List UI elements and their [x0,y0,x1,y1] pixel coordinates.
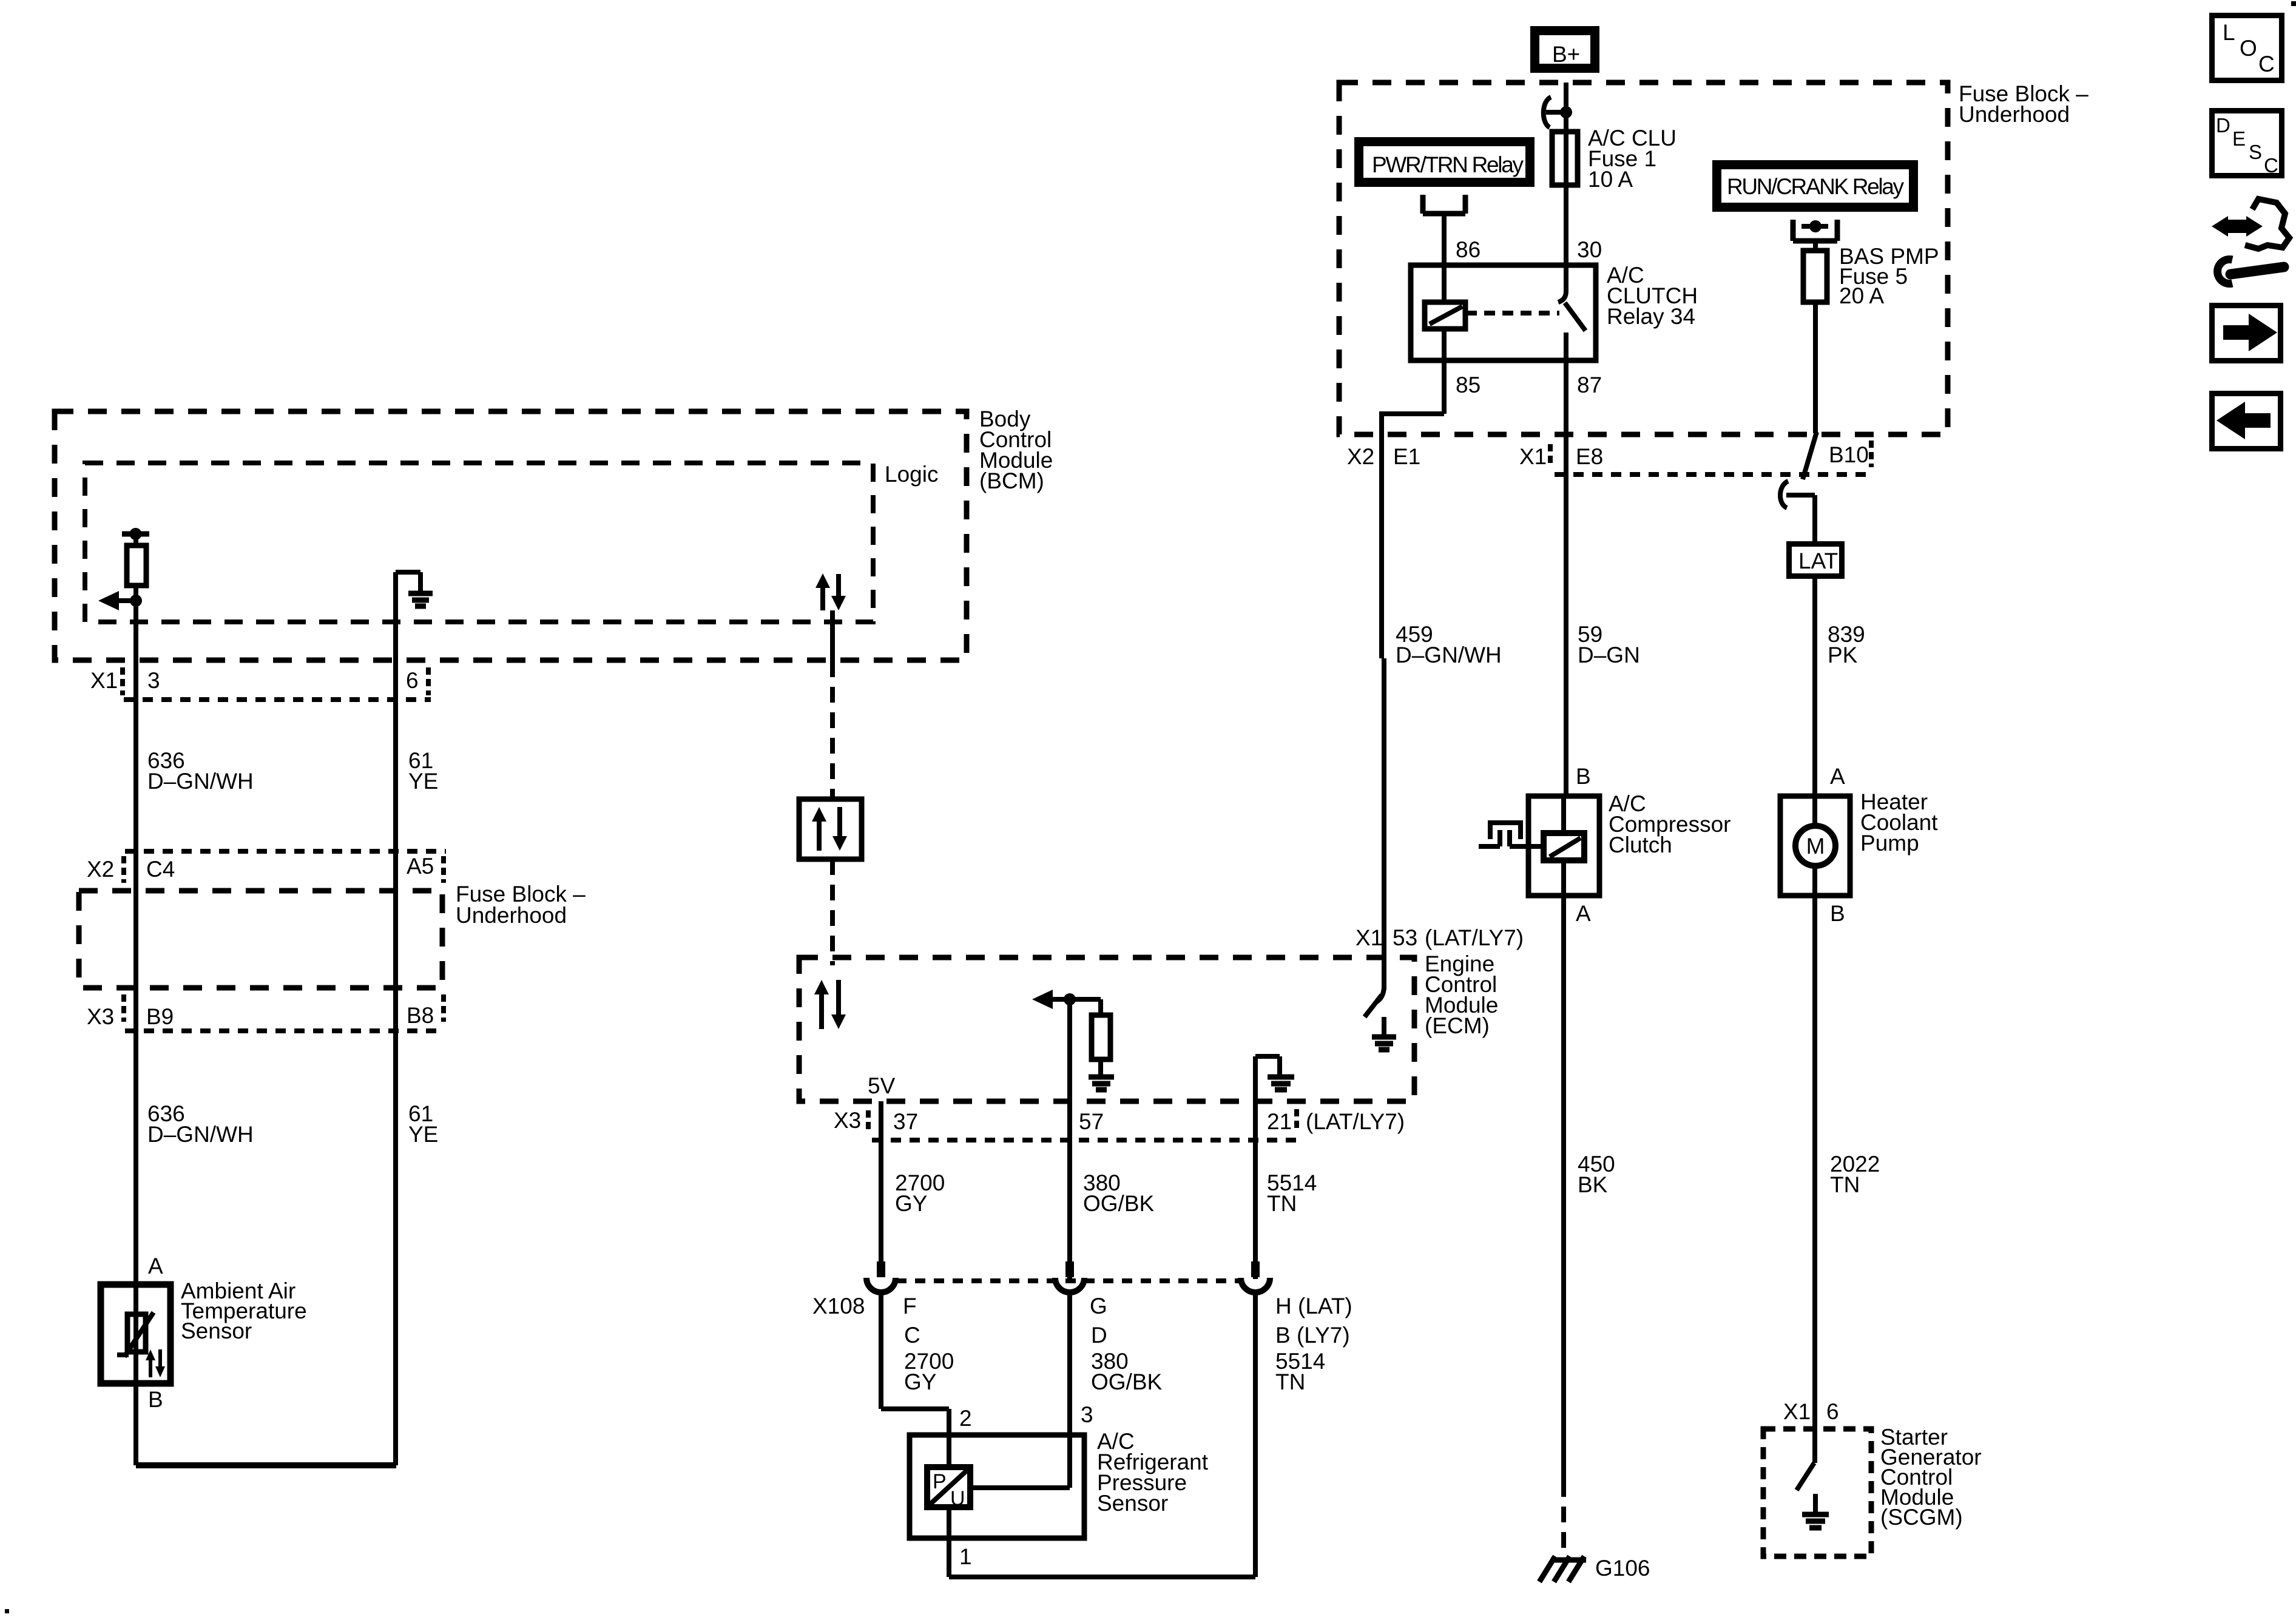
svg-text:C: C [2264,154,2278,177]
svg-text:B: B [148,1387,163,1412]
svg-text:X1: X1 [1356,925,1383,950]
svg-text:U: U [950,1487,965,1510]
svg-text:57: 57 [1079,1109,1104,1134]
svg-text:30: 30 [1577,237,1602,262]
svg-text:A5: A5 [407,854,434,879]
svg-text:85: 85 [1456,373,1481,397]
svg-text:21: 21 [1267,1109,1292,1134]
svg-text:X2: X2 [87,857,114,882]
svg-text:B (LY7): B (LY7) [1275,1323,1350,1348]
svg-text:(BCM): (BCM) [979,468,1044,493]
svg-text:B: B [1830,901,1845,926]
svg-text:PK: PK [1828,643,1858,667]
svg-text:P: P [933,1470,947,1493]
svg-text:E8: E8 [1576,444,1603,469]
svg-text:X2: X2 [1347,444,1374,469]
svg-text:37: 37 [893,1109,918,1134]
svg-text:Logic: Logic [885,462,938,487]
svg-text:Underhood: Underhood [1959,102,2070,127]
svg-text:Relay 34: Relay 34 [1607,304,1695,329]
svg-text:F: F [903,1294,917,1318]
svg-text:6: 6 [406,668,419,693]
svg-text:D–GN: D–GN [1578,643,1640,667]
svg-text:LAT: LAT [1798,549,1838,573]
svg-text:B: B [1576,764,1591,789]
svg-text:X1: X1 [1519,444,1547,469]
svg-text:A: A [148,1254,163,1278]
svg-text:C4: C4 [146,857,175,882]
svg-text:B9: B9 [146,1004,174,1029]
svg-text:TN: TN [1830,1172,1860,1197]
svg-text:D–GN/WH: D–GN/WH [147,769,254,794]
svg-text:(LAT/LY7): (LAT/LY7) [1425,925,1524,950]
svg-text:X3: X3 [87,1004,114,1029]
svg-text:TN: TN [1275,1369,1305,1394]
svg-text:Clutch: Clutch [1609,832,1672,857]
svg-text:(ECM): (ECM) [1425,1013,1490,1038]
svg-text:GY: GY [904,1369,936,1394]
svg-text:D–GN/WH: D–GN/WH [1396,643,1502,667]
svg-text:1: 1 [959,1544,972,1569]
svg-text:86: 86 [1456,237,1481,262]
svg-text:10 A: 10 A [1588,167,1633,192]
svg-text:RUN/CRANK Relay: RUN/CRANK Relay [1727,174,1905,199]
svg-text:B+: B+ [1552,42,1580,67]
svg-text:5V: 5V [868,1073,896,1098]
svg-text:A: A [1830,764,1845,789]
svg-text:B8: B8 [407,1003,434,1028]
svg-text:S: S [2249,141,2262,163]
svg-text:6: 6 [1826,1399,1839,1424]
svg-text:YE: YE [408,1122,438,1147]
svg-text:(LAT/LY7): (LAT/LY7) [1306,1109,1405,1134]
svg-text:X1: X1 [1783,1399,1811,1424]
svg-text:C: C [904,1323,920,1348]
svg-text:B10: B10 [1829,442,1869,467]
svg-text:87: 87 [1577,373,1602,397]
svg-text:Underhood: Underhood [456,903,567,928]
svg-text:A: A [1576,901,1591,926]
svg-text:D: D [2216,114,2230,137]
svg-text:OG/BK: OG/BK [1083,1191,1155,1216]
svg-text:BK: BK [1578,1172,1608,1197]
svg-text:X3: X3 [834,1108,861,1133]
svg-text:X108: X108 [812,1294,865,1318]
svg-text:3: 3 [1081,1402,1093,1427]
svg-text:D–GN/WH: D–GN/WH [147,1122,254,1147]
svg-text:O: O [2240,36,2257,61]
svg-text:TN: TN [1267,1191,1297,1216]
svg-text:M: M [1806,834,1825,859]
svg-text:E: E [2232,127,2246,150]
svg-text:GY: GY [895,1191,927,1216]
svg-text:C: C [2258,52,2275,76]
svg-text:E1: E1 [1393,444,1420,469]
svg-text:OG/BK: OG/BK [1091,1369,1163,1394]
svg-text:D: D [1091,1323,1107,1348]
svg-text:3: 3 [147,668,160,693]
svg-text:53: 53 [1393,925,1417,950]
svg-text:G106: G106 [1595,1556,1650,1581]
svg-text:G: G [1090,1294,1107,1318]
svg-text:Sensor: Sensor [1097,1491,1168,1516]
svg-text:YE: YE [408,769,438,794]
svg-text:Pump: Pump [1860,831,1919,856]
svg-text:Sensor: Sensor [181,1318,252,1343]
svg-text:PWR/TRN Relay: PWR/TRN Relay [1372,152,1524,177]
svg-text:H (LAT): H (LAT) [1275,1294,1352,1318]
svg-text:2: 2 [959,1406,972,1431]
svg-text:20 A: 20 A [1839,283,1884,308]
svg-text:(SCGM): (SCGM) [1880,1505,1963,1530]
svg-text:L: L [2223,20,2235,45]
svg-text:X1: X1 [90,668,118,693]
